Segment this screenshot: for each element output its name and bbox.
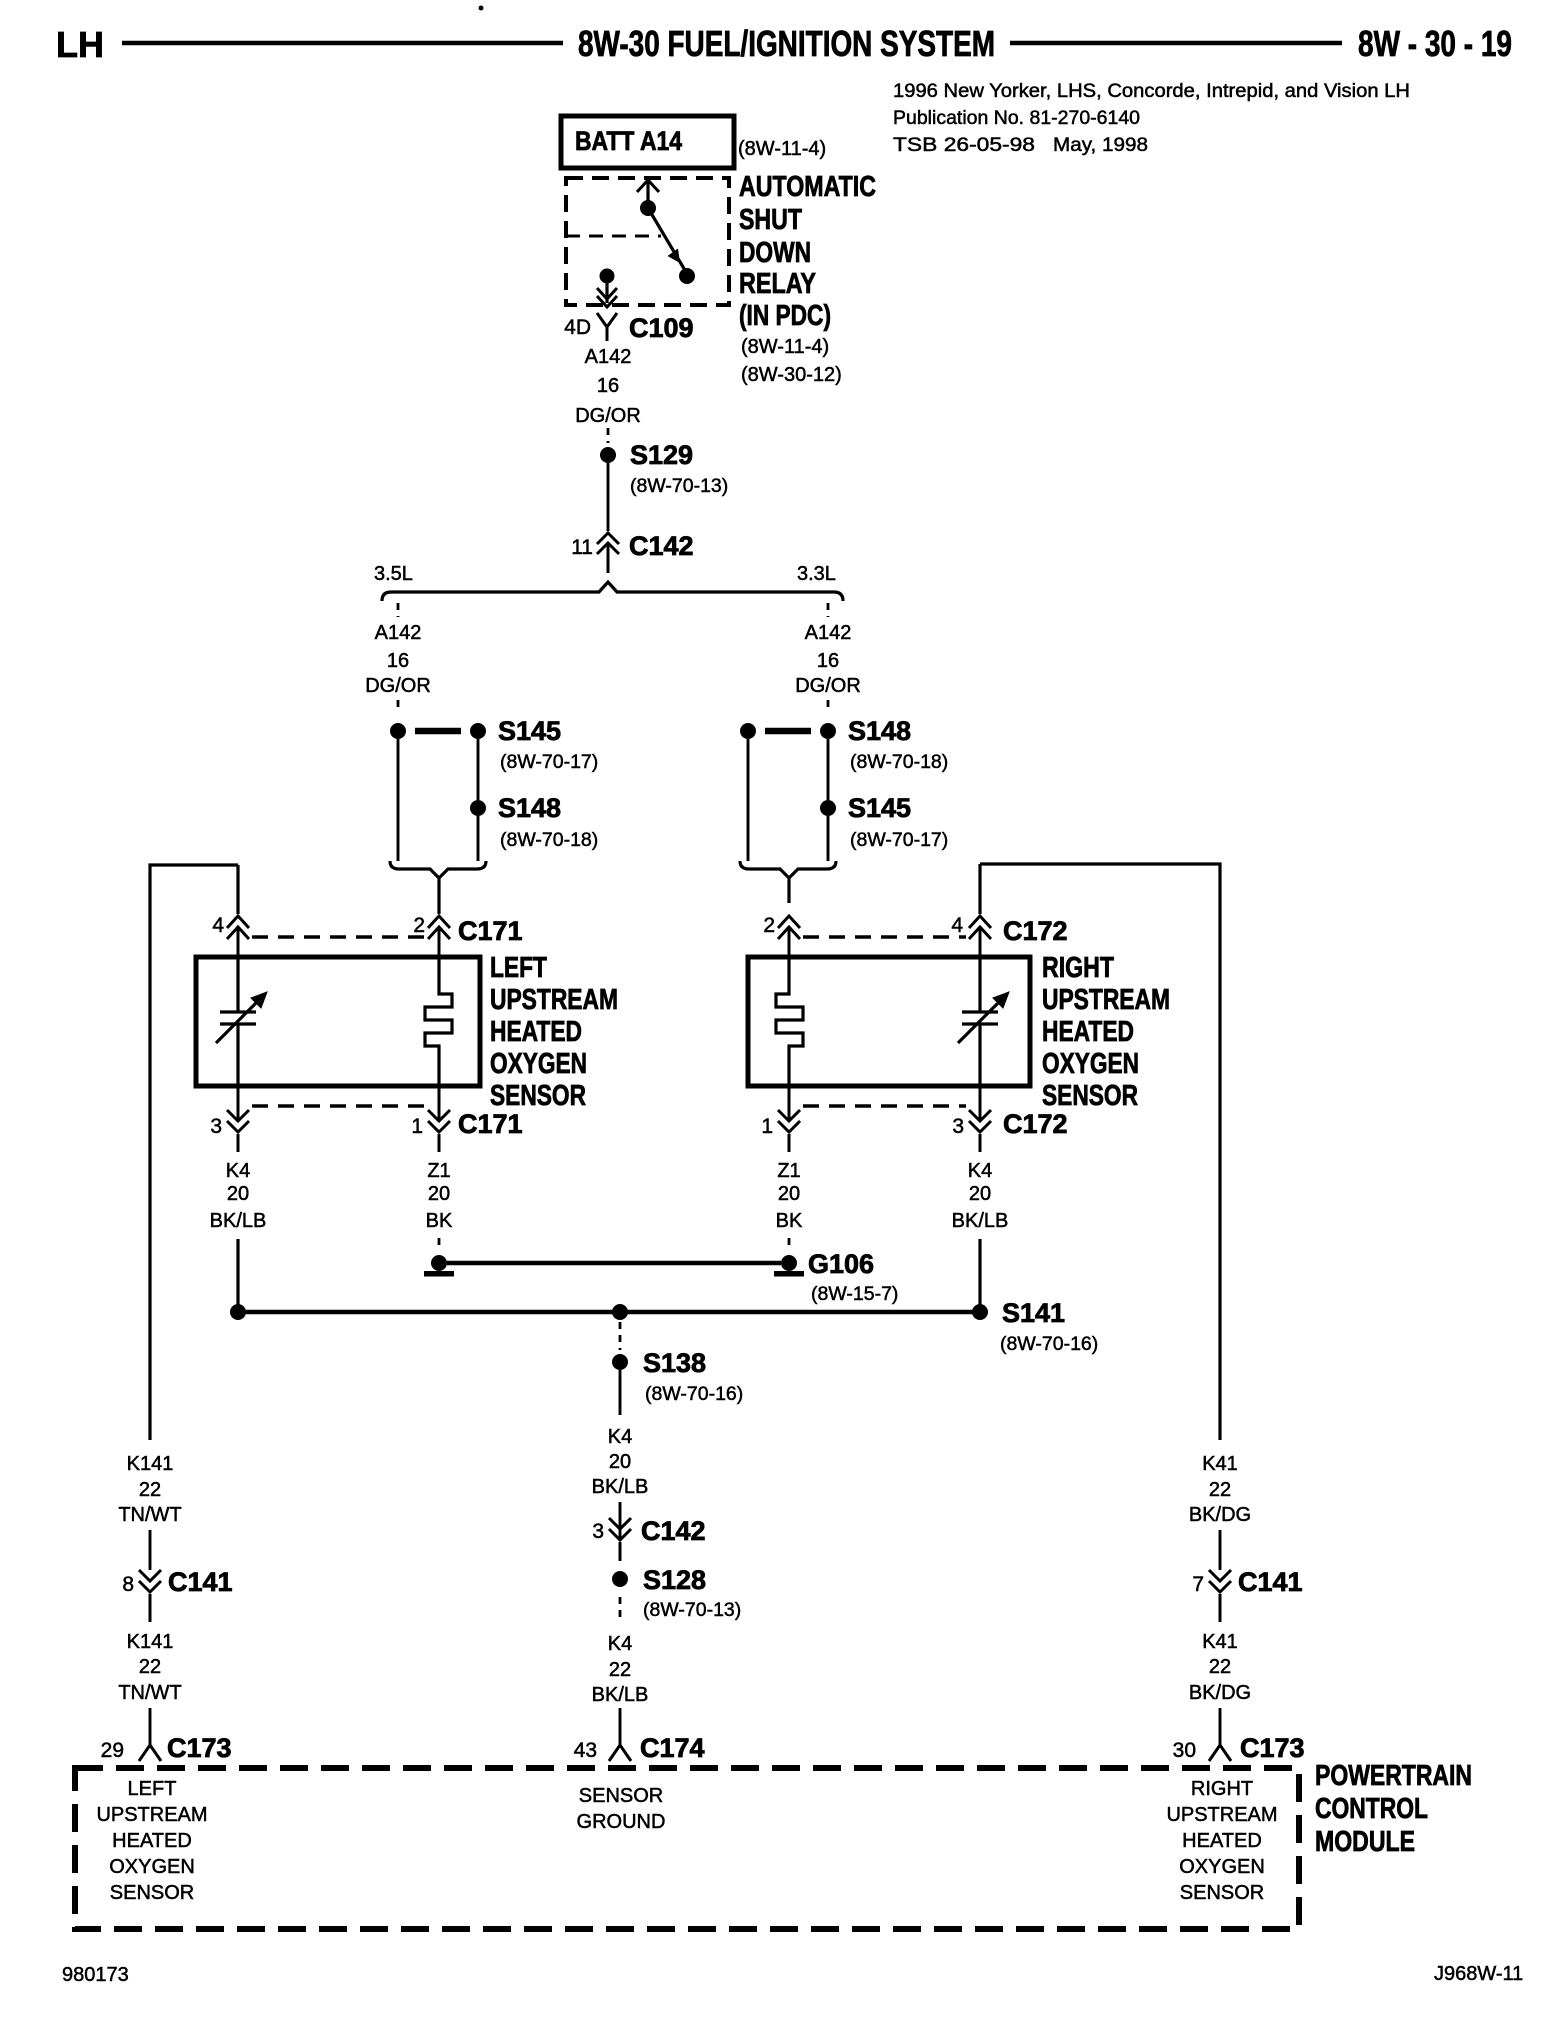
svg-text:8: 8 (122, 1573, 134, 1596)
svg-text:UPSTREAM: UPSTREAM (490, 984, 618, 1016)
svg-text:3.5L: 3.5L (374, 563, 413, 585)
svg-text:4D: 4D (564, 316, 591, 339)
connector C141 pin 8 (122, 1567, 232, 1622)
wire stub (827, 603, 830, 617)
svg-text:Z1: Z1 (427, 1160, 450, 1182)
left signal wire from sensor to PCM (150, 865, 238, 1440)
svg-text:1996 New Yorker, LHS, Concorde: 1996 New Yorker, LHS, Concorde, Intrepid… (893, 80, 1410, 102)
svg-text:K141: K141 (127, 1631, 174, 1653)
wire (477, 816, 480, 861)
wire pin4 drop (236, 865, 239, 914)
svg-text:C174: C174 (640, 1733, 705, 1763)
wire K41 22 BK/DG label (lower) (1189, 1631, 1251, 1704)
wire pin4 drop right (978, 864, 981, 914)
connector C109 pin 4D (564, 313, 693, 343)
wire K4 right down to S141 (978, 1239, 981, 1306)
svg-text:K41: K41 (1202, 1453, 1238, 1475)
svg-text:POWERTRAIN: POWERTRAIN (1315, 1760, 1472, 1792)
svg-text:LEFT: LEFT (490, 952, 547, 984)
svg-text:OXYGEN: OXYGEN (109, 1856, 195, 1878)
splice S141 bus line (230, 1298, 1098, 1355)
svg-text:TN/WT: TN/WT (118, 1504, 181, 1526)
svg-text:22: 22 (139, 1656, 161, 1678)
svg-text:LEFT: LEFT (128, 1778, 177, 1800)
svg-text:DG/OR: DG/OR (365, 675, 431, 697)
svg-text:A142: A142 (585, 346, 632, 368)
svg-text:A142: A142 (375, 622, 422, 644)
svg-text:43: 43 (574, 1739, 597, 1762)
svg-text:MODULE: MODULE (1315, 1826, 1415, 1858)
svg-text:22: 22 (1209, 1479, 1231, 1501)
svg-text:UPSTREAM: UPSTREAM (1166, 1804, 1277, 1826)
svg-text:May, 1998: May, 1998 (1053, 134, 1148, 156)
svg-text:DG/OR: DG/OR (575, 405, 641, 427)
svg-text:(8W-70-16): (8W-70-16) (1000, 1333, 1098, 1355)
connector C172 top row (763, 914, 1067, 957)
wire stub (827, 700, 830, 713)
splice S145 (right) (820, 793, 948, 851)
svg-text:(8W-70-13): (8W-70-13) (643, 1599, 741, 1621)
svg-text:(8W-11-4): (8W-11-4) (741, 336, 829, 358)
wire (477, 739, 480, 800)
powertrain control module box (75, 1768, 1299, 1929)
wire stub (619, 1597, 622, 1622)
svg-text:C173: C173 (1240, 1733, 1305, 1763)
wire (827, 816, 830, 861)
wire Z1 20 BK label (right) (776, 1160, 803, 1232)
svg-text:HEATED: HEATED (1182, 1830, 1262, 1852)
connector C174 pin 43 (574, 1733, 705, 1763)
wire A142 16 DG/OR label (right) (795, 622, 861, 697)
svg-text:K4: K4 (608, 1426, 632, 1448)
wire K141 22 TN/WT label (lower) (118, 1631, 181, 1704)
svg-text:3: 3 (952, 1115, 964, 1138)
svg-text:AUTOMATIC: AUTOMATIC (739, 171, 876, 203)
merge brace left (390, 861, 486, 903)
svg-text:BATT A14: BATT A14 (575, 126, 682, 156)
svg-text:3: 3 (210, 1115, 222, 1138)
svg-text:C141: C141 (168, 1567, 233, 1597)
svg-text:SENSOR: SENSOR (1042, 1080, 1138, 1112)
svg-text:RIGHT: RIGHT (1042, 952, 1114, 984)
svg-text:S148: S148 (848, 716, 911, 746)
svg-text:BK/DG: BK/DG (1189, 1504, 1251, 1526)
PCM title (1315, 1760, 1472, 1858)
wire (397, 739, 400, 861)
wire (619, 1708, 622, 1745)
svg-text:BK: BK (776, 1210, 803, 1232)
splice S138 (612, 1348, 743, 1405)
sensor element (variable) left (216, 957, 267, 1086)
svg-text:S145: S145 (498, 716, 561, 746)
svg-text:HEATED: HEATED (1042, 1016, 1134, 1048)
wire stub (397, 603, 400, 617)
wire (149, 1530, 152, 1570)
svg-text:8W-30 FUEL/IGNITION SYSTEM: 8W-30 FUEL/IGNITION SYSTEM (578, 23, 995, 64)
ground G106 right symbol (774, 1249, 898, 1305)
svg-text:GROUND: GROUND (577, 1811, 666, 1833)
svg-text:G106: G106 (808, 1249, 874, 1279)
relay K1 automatic shut down relay box (566, 178, 729, 305)
wire (827, 739, 830, 800)
wire A142 16 DG/OR label (575, 346, 641, 427)
connector C173 pin 30 (1173, 1733, 1305, 1763)
svg-text:S128: S128 (643, 1565, 706, 1595)
svg-text:(IN PDC): (IN PDC) (739, 300, 831, 332)
svg-text:CONTROL: CONTROL (1315, 1793, 1428, 1825)
svg-text:BK/DG: BK/DG (1189, 1682, 1251, 1704)
svg-text:(8W-15-7): (8W-15-7) (811, 1283, 898, 1305)
svg-text:K141: K141 (127, 1453, 174, 1475)
wire K141 22 TN/WT label (upper) (118, 1453, 181, 1526)
wire stub (397, 700, 400, 713)
svg-text:S138: S138 (643, 1348, 706, 1378)
svg-text:C142: C142 (641, 1516, 706, 1546)
svg-text:3: 3 (592, 1520, 604, 1543)
svg-text:SHUT: SHUT (739, 204, 802, 236)
splice S128 (612, 1565, 741, 1621)
svg-text:(8W-70-16): (8W-70-16) (645, 1383, 743, 1405)
wire (1219, 1530, 1222, 1570)
svg-text:1: 1 (411, 1115, 423, 1138)
svg-text:(8W-70-18): (8W-70-18) (850, 751, 948, 773)
heater element left (425, 957, 452, 1086)
right signal wire from sensor to PCM (980, 864, 1220, 1440)
wire (149, 1708, 152, 1745)
svg-text:20: 20 (969, 1183, 991, 1205)
svg-text:30: 30 (1173, 1739, 1196, 1762)
svg-text:LH: LH (56, 24, 104, 65)
svg-text:2: 2 (763, 914, 775, 937)
svg-text:OXYGEN: OXYGEN (1179, 1856, 1265, 1878)
svg-text:4: 4 (951, 914, 963, 937)
ground tie line (447, 1261, 781, 1266)
svg-text:(8W-70-13): (8W-70-13) (630, 475, 728, 497)
wire (619, 1502, 622, 1540)
left upstream heated oxygen sensor box (196, 957, 480, 1086)
header rule left (122, 41, 563, 46)
sensor element (variable) right (958, 957, 1009, 1086)
svg-text:2: 2 (413, 914, 425, 937)
svg-text:16: 16 (387, 650, 409, 672)
svg-text:(8W-70-18): (8W-70-18) (500, 829, 598, 851)
wire K4 20 BK/LB label (middle) (592, 1426, 649, 1498)
relay fixed contact arrow (pin 30 to BATT) (637, 180, 659, 216)
svg-text:C171: C171 (458, 916, 523, 946)
wire K4 20 BK/LB label (right) (952, 1160, 1009, 1232)
svg-text:C109: C109 (629, 313, 694, 343)
right sensor description (1042, 952, 1170, 1112)
svg-text:K4: K4 (968, 1160, 992, 1182)
svg-text:C141: C141 (1238, 1567, 1303, 1597)
svg-text:980173: 980173 (62, 1964, 129, 1986)
svg-text:UPSTREAM: UPSTREAM (1042, 984, 1170, 1016)
svg-text:1: 1 (761, 1115, 773, 1138)
wire K41 22 BK/DG label (upper) (1189, 1453, 1251, 1526)
wire (747, 739, 750, 861)
svg-text:SENSOR: SENSOR (110, 1882, 194, 1904)
svg-text:DOWN: DOWN (739, 237, 811, 269)
svg-text:UPSTREAM: UPSTREAM (96, 1804, 207, 1826)
connector C142 pin 3 (592, 1516, 705, 1561)
svg-text:S145: S145 (848, 793, 911, 823)
relay movable contact arm (648, 208, 695, 284)
svg-text:RIGHT: RIGHT (1191, 1778, 1253, 1800)
PCM left pin label (96, 1778, 207, 1904)
relay output pin with arrow (597, 269, 617, 308)
splice S145 (left) (390, 716, 598, 773)
svg-text:K41: K41 (1202, 1631, 1238, 1653)
svg-text:20: 20 (227, 1183, 249, 1205)
PCM middle pin label (577, 1785, 666, 1833)
connector C142 pin 11 (571, 531, 693, 573)
svg-text:7: 7 (1192, 1573, 1204, 1596)
svg-text:BK/LB: BK/LB (952, 1210, 1009, 1232)
svg-text:RELAY: RELAY (739, 268, 816, 300)
splice S148 (right) (740, 716, 948, 773)
svg-text:4: 4 (212, 914, 224, 937)
svg-text:Z1: Z1 (777, 1160, 800, 1182)
svg-text:C172: C172 (1003, 1109, 1068, 1139)
connector C173 pin 29 (101, 1733, 232, 1763)
svg-text:TN/WT: TN/WT (118, 1682, 181, 1704)
svg-text:S148: S148 (498, 793, 561, 823)
svg-text:A142: A142 (805, 622, 852, 644)
svg-text:OXYGEN: OXYGEN (490, 1048, 587, 1080)
wire to C142 (607, 463, 610, 531)
ground G106 right lead (788, 1238, 791, 1250)
svg-text:S129: S129 (630, 440, 693, 470)
connector C171 bottom row (210, 1086, 522, 1152)
svg-text:16: 16 (817, 650, 839, 672)
relay description text (739, 171, 876, 386)
svg-text:8W - 30 - 19: 8W - 30 - 19 (1358, 23, 1512, 64)
connector C141 pin 7 (1192, 1567, 1302, 1622)
svg-text:11: 11 (571, 536, 593, 559)
svg-text:(8W-70-17): (8W-70-17) (850, 829, 948, 851)
svg-text:S141: S141 (1002, 1298, 1065, 1328)
svg-text:SENSOR: SENSOR (1180, 1882, 1264, 1904)
svg-text:BK/LB: BK/LB (592, 1684, 649, 1706)
wire K4 22 BK/LB label (middle bottom) (592, 1633, 649, 1706)
svg-text:BK/LB: BK/LB (210, 1210, 267, 1232)
wire K4 20 BK/LB label (left) (210, 1160, 267, 1232)
wire K4 left down to S141 (236, 1239, 239, 1306)
wire (619, 1370, 622, 1415)
svg-text:20: 20 (778, 1183, 800, 1205)
wire brace stem to pin2 (437, 903, 440, 914)
wire stub (619, 1322, 622, 1350)
right upstream heated oxygen sensor box (748, 957, 1030, 1086)
svg-text:J968W-11: J968W-11 (1434, 1963, 1523, 1985)
left sensor description (490, 952, 618, 1112)
svg-text:3.3L: 3.3L (797, 563, 836, 585)
svg-text:C172: C172 (1003, 916, 1068, 946)
fuse BATT A14 (561, 116, 734, 168)
svg-text:Publication No. 81-270-6140: Publication No. 81-270-6140 (893, 107, 1140, 129)
svg-text:BK: BK (426, 1210, 453, 1232)
svg-text:K4: K4 (608, 1633, 632, 1655)
svg-text:(8W-30-12): (8W-30-12) (741, 364, 842, 386)
svg-text:20: 20 (609, 1451, 631, 1473)
merge brace right (740, 861, 836, 903)
wire Z1 20 BK label (left) (426, 1160, 453, 1232)
connector C172 bottom row (761, 1086, 1067, 1152)
svg-text:20: 20 (428, 1183, 450, 1205)
svg-text:DG/OR: DG/OR (795, 675, 861, 697)
svg-text:16: 16 (597, 375, 619, 397)
wire dashed stub (607, 428, 610, 443)
connector C171 top row (212, 914, 522, 957)
svg-text:K4: K4 (226, 1160, 250, 1182)
splice S129 (600, 440, 728, 497)
svg-text:(8W-11-4): (8W-11-4) (738, 138, 826, 160)
svg-text:SENSOR: SENSOR (579, 1785, 663, 1807)
svg-text:(8W-70-17): (8W-70-17) (500, 751, 598, 773)
svg-text:22: 22 (139, 1479, 161, 1501)
speck (479, 6, 484, 11)
PCM right pin label (1166, 1778, 1277, 1904)
ground G106 left symbol (424, 1255, 454, 1277)
svg-text:C173: C173 (167, 1733, 232, 1763)
svg-text:C142: C142 (629, 531, 694, 561)
svg-text:22: 22 (1209, 1656, 1231, 1678)
engine split brace (382, 582, 843, 601)
splice S148 (left) (470, 793, 598, 851)
svg-text:TSB 26-05-98: TSB 26-05-98 (893, 134, 1035, 156)
svg-text:OXYGEN: OXYGEN (1042, 1048, 1139, 1080)
svg-text:HEATED: HEATED (490, 1016, 582, 1048)
wire A142 16 DG/OR label (left) (365, 622, 431, 697)
svg-text:SENSOR: SENSOR (490, 1080, 586, 1112)
ground G106 left lead (438, 1238, 441, 1250)
svg-text:BK/LB: BK/LB (592, 1476, 649, 1498)
svg-text:22: 22 (609, 1659, 631, 1681)
svg-text:C171: C171 (458, 1109, 523, 1139)
header rule right (1010, 41, 1342, 46)
svg-text:HEATED: HEATED (112, 1830, 192, 1852)
svg-text:29: 29 (101, 1739, 124, 1762)
heater element right (776, 957, 803, 1086)
wire (1219, 1708, 1222, 1745)
